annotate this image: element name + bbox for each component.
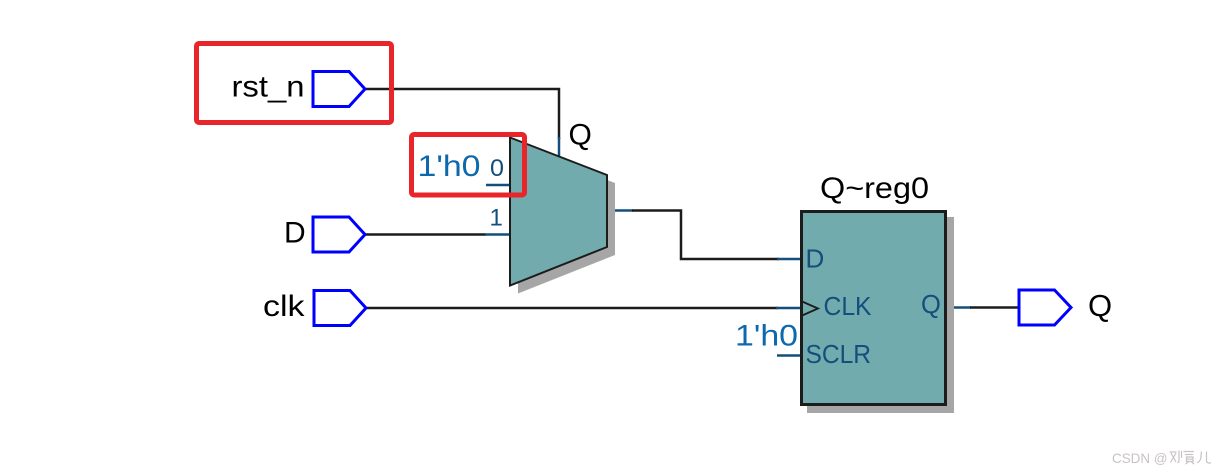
register Q~reg0 body — [802, 212, 946, 405]
svg-text:D: D — [806, 244, 825, 274]
svg-text:1'h0: 1'h0 — [418, 150, 481, 183]
svg-text:CLK: CLK — [824, 291, 873, 321]
svg-text:D: D — [284, 217, 306, 250]
wire register Q stub (navy) — [945, 306, 971, 309]
wire register D stub (navy) — [777, 258, 801, 261]
red annotation box around rst_n — [197, 44, 392, 123]
wire mux output to register D — [632, 211, 779, 260]
svg-text:Q: Q — [921, 291, 941, 319]
svg-text:1'h0: 1'h0 — [735, 320, 798, 353]
svg-text:Q~reg0: Q~reg0 — [820, 172, 929, 205]
input pin D — [313, 217, 365, 252]
svg-text:rst_n: rst_n — [232, 71, 305, 104]
wire D to mux input 1 — [365, 233, 486, 236]
register clock triangle — [801, 301, 818, 316]
wire clk to register CLK — [366, 307, 778, 310]
wire mux output stub (navy) — [607, 209, 633, 212]
mux Q~0 body — [510, 138, 607, 286]
wire register Q to output pin — [970, 306, 1019, 309]
wire D stub at mux (navy) — [485, 233, 510, 236]
register Q~reg0 shadow — [807, 217, 954, 413]
red annotation box around 1'h0 constant — [412, 135, 525, 196]
mux Q~0 shadow — [518, 146, 615, 294]
watermark CSDN — [1112, 450, 1211, 466]
wire register CLK stub (navy) — [776, 307, 801, 310]
svg-text:1: 1 — [490, 205, 503, 232]
wire SCLR constant stub (navy) — [777, 354, 801, 357]
svg-text:clk: clk — [263, 290, 306, 323]
glyph 颜 — [1184, 452, 1195, 465]
output pin Q — [1019, 290, 1071, 325]
wire constant stub mux input 0 (navy) — [486, 184, 510, 187]
input pin clk — [314, 291, 366, 326]
glyph 刘 — [1170, 451, 1182, 463]
wire mux select stub (navy) — [558, 137, 561, 158]
svg-text:CSDN @: CSDN @ — [1112, 450, 1168, 466]
svg-text:0: 0 — [490, 155, 504, 182]
svg-text:SCLR: SCLR — [806, 339, 872, 369]
svg-text:Q: Q — [1088, 288, 1112, 323]
glyph 儿 — [1197, 452, 1211, 464]
svg-text:Q: Q — [569, 119, 592, 152]
input pin rst_n — [313, 72, 365, 107]
wire rst_n to mux select — [365, 89, 559, 139]
